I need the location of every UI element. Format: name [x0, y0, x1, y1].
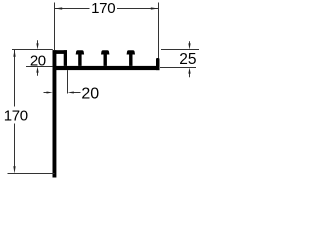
- right 25 dim bottom arrow: [189, 73, 191, 77]
- extension line right (x=158.3): [158, 3, 160, 59]
- svg-text:170: 170: [4, 108, 28, 125]
- left dim top arrowhead: [13, 50, 15, 57]
- top dimension line 170 (left segment): [55, 8, 90, 10]
- stud 3 stem: [129, 54, 132, 66]
- right 25 upper extension line (y=50): [161, 49, 199, 51]
- svg-text:170: 170: [91, 0, 115, 17]
- profile hook right leg: [64, 50, 67, 66]
- stud 2 stem: [104, 54, 107, 66]
- left 20 dim bottom arrow: [37, 72, 39, 76]
- svg-text:20: 20: [81, 85, 99, 102]
- left 20 dim top arrow: [37, 40, 39, 45]
- profile wall (vertical thick leg): [53, 50, 57, 177]
- stud 1 head: [76, 50, 84, 54]
- stud 2 head: [101, 50, 109, 54]
- top dimension line 170 (right segment): [117, 8, 159, 10]
- right 25 dim top arrow: [189, 41, 191, 45]
- top dim left arrowhead: [55, 7, 63, 9]
- stud 3 head: [127, 50, 135, 54]
- extension line left (x=54.7): [54, 3, 56, 51]
- profile hook top bar: [53, 50, 68, 54]
- left 20 dim lower extension line (y=66.3): [26, 66, 53, 68]
- profile right end lip: [156, 58, 160, 70]
- stud 1 stem: [78, 54, 81, 66]
- profile top flange: [53, 66, 160, 70]
- inner 20 left tail arrow (points right at wall): [44, 92, 48, 94]
- left dim bottom arrowhead: [13, 166, 15, 173]
- left vertical dimension line 170 (top segment): [14, 50, 16, 107]
- left vertical dimension line 170 (bottom segment): [14, 124, 16, 168]
- inner 20 vertical extension line (x=67.2): [67, 70, 69, 93]
- top dim right arrowhead: [151, 7, 159, 9]
- svg-text:25: 25: [179, 51, 196, 68]
- right 25 lower extension line (y=67.5): [160, 67, 196, 69]
- extension line bottom horizontal (y=173.6): [8, 173, 55, 175]
- svg-text:20: 20: [30, 52, 46, 69]
- extension line top-left horizontal (y=49.7): [12, 49, 53, 51]
- inner 20 dim line with left-pointing arrowhead: [73, 92, 81, 94]
